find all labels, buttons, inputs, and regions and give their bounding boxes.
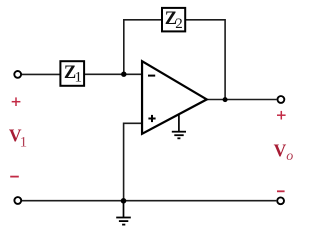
junction: bottom rail node — [121, 198, 127, 204]
polarity - (input side) — [10, 176, 19, 178]
terminal: output (top right) — [278, 96, 285, 103]
impedance Z1 (box) — [60, 61, 84, 86]
ground (op-amp reference) — [172, 115, 186, 139]
label Z2 — [165, 9, 183, 32]
wire: bottom rail — [21, 200, 276, 202]
wire: Z2 to right vertical down to output node — [186, 20, 225, 100]
wire: non-inverting input to bottom rail — [124, 123, 142, 200]
svg-text:1: 1 — [75, 69, 83, 85]
wire: Z1 to op-amp inverting input — [85, 73, 142, 75]
op-amp inverting input marking (-) — [148, 75, 155, 77]
wire: feedback left vertical and top run to Z2 — [124, 20, 161, 74]
terminal: bottom left — [14, 197, 21, 204]
terminal: input (top left) — [14, 71, 21, 78]
op-amp non-inverting input marking (+) — [148, 115, 155, 122]
junction: inverting input node — [121, 72, 126, 77]
label Vo — [274, 141, 294, 165]
polarity - (output side) — [277, 190, 285, 192]
wire: input terminal to Z1 — [21, 73, 60, 75]
svg-text:2: 2 — [175, 16, 183, 32]
polarity + (input side) — [12, 97, 21, 106]
label Z1 — [64, 63, 82, 86]
junction: output node — [223, 97, 228, 102]
ground (bottom rail) — [116, 201, 131, 225]
impedance Z2 (box) — [162, 8, 185, 32]
polarity + (output side) — [277, 111, 286, 120]
svg-text:1: 1 — [20, 134, 28, 150]
wire: op-amp output to output terminal — [206, 99, 277, 101]
svg-text:V: V — [274, 141, 287, 161]
label V1 — [9, 126, 27, 151]
svg-text:o: o — [286, 149, 293, 164]
terminal: bottom right — [277, 197, 284, 204]
op-amp U1 (triangle) — [142, 61, 207, 134]
